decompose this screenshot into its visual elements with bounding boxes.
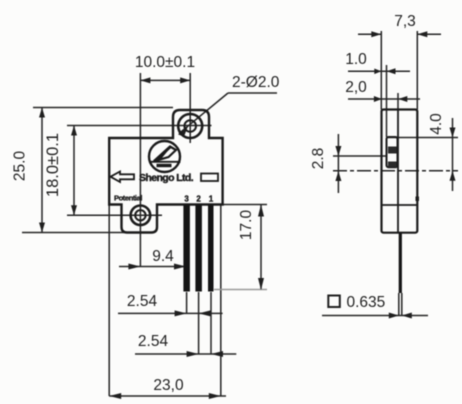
svg-text:10.0±0.1: 10.0±0.1 [135, 54, 195, 71]
svg-text:7,3: 7,3 [394, 13, 416, 30]
svg-text:1: 1 [209, 195, 214, 204]
svg-text:2.54: 2.54 [138, 333, 169, 350]
svg-text:2.54: 2.54 [127, 293, 158, 310]
svg-text:4.0: 4.0 [428, 113, 445, 135]
svg-text:2,0: 2,0 [345, 79, 367, 96]
svg-text:Potential: Potential [114, 194, 142, 203]
svg-text:1.0: 1.0 [345, 51, 367, 68]
svg-text:2.8: 2.8 [310, 148, 327, 170]
svg-text:3: 3 [184, 195, 189, 204]
svg-text:23,0: 23,0 [153, 377, 184, 394]
svg-text:17.0: 17.0 [238, 210, 255, 241]
svg-text:9.4: 9.4 [152, 248, 174, 265]
svg-text:Shengo Ltd.: Shengo Ltd. [139, 172, 194, 184]
svg-text:25.0: 25.0 [12, 151, 29, 182]
svg-text:2: 2 [196, 195, 201, 204]
svg-text:18.0±0.1: 18.0±0.1 [44, 133, 62, 197]
svg-text:2-Ø2.0: 2-Ø2.0 [232, 74, 280, 91]
svg-text:0.635: 0.635 [347, 294, 386, 311]
